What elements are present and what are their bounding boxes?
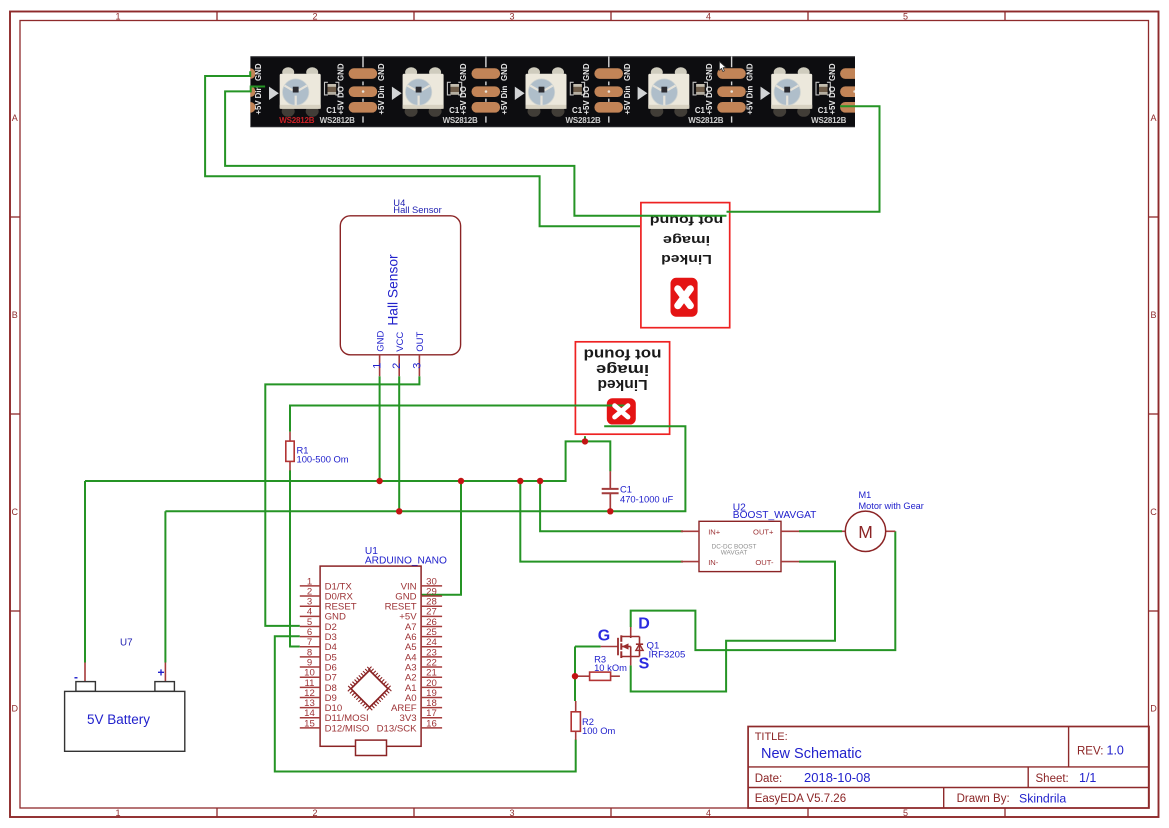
- svg-text:D13/SCK: D13/SCK: [377, 723, 418, 734]
- svg-text:GND: GND: [746, 63, 755, 81]
- svg-text:DO: DO: [705, 86, 714, 98]
- junction (520.3,481): [517, 478, 523, 484]
- wire gate net: [575, 646, 601, 648]
- svg-text:IN+: IN+: [708, 528, 721, 537]
- svg-text:GND: GND: [582, 63, 591, 81]
- wire gate net vertical R3 R2: [574, 647, 576, 702]
- wire U2 OUT- to Q1 source: [631, 562, 835, 692]
- wire R1 top to image U5: [290, 406, 625, 432]
- svg-text:Din: Din: [377, 85, 386, 98]
- svg-text:Skindrila: Skindrila: [1019, 791, 1066, 805]
- svg-text:A: A: [12, 113, 18, 123]
- junction (379.6,481): [376, 478, 382, 484]
- svg-text:Hall Sensor: Hall Sensor: [393, 204, 441, 215]
- svg-text:A: A: [1150, 113, 1156, 123]
- svg-text:5: 5: [903, 808, 908, 818]
- svg-text:Din: Din: [746, 85, 755, 98]
- svg-text:10 kOm: 10 kOm: [594, 662, 627, 673]
- svg-text:3: 3: [411, 363, 423, 369]
- junction (575,676.2): [572, 673, 578, 679]
- svg-text:GND: GND: [377, 63, 386, 81]
- svg-text:+5V: +5V: [377, 100, 386, 115]
- svg-text:DO: DO: [828, 86, 837, 98]
- svg-text:WS2812B: WS2812B: [279, 116, 314, 125]
- wire hall VCC to VCC bus: [398, 376, 400, 511]
- svg-text:GND: GND: [459, 63, 468, 81]
- svg-text:Hall Sensor: Hall Sensor: [386, 254, 401, 326]
- wire R1 bottom to arduino D4: [290, 470, 300, 646]
- IC U2 BOOST_WAVGAT: [681, 502, 816, 571]
- svg-text:3: 3: [509, 11, 514, 21]
- svg-text:TITLE:: TITLE:: [755, 731, 788, 743]
- junction (399.2,511.3): [396, 508, 402, 514]
- svg-text:D: D: [638, 615, 650, 632]
- svg-text:WS2812B: WS2812B: [443, 116, 478, 125]
- svg-text:WAVGAT: WAVGAT: [721, 550, 748, 557]
- svg-text:GND: GND: [336, 63, 345, 81]
- svg-text:OUT: OUT: [415, 332, 426, 352]
- svg-text:ARDUINO_NANO: ARDUINO_NANO: [365, 555, 447, 566]
- svg-text:+5V: +5V: [336, 100, 345, 115]
- svg-text:+5V: +5V: [746, 100, 755, 115]
- svg-text:New Schematic: New Schematic: [761, 746, 862, 762]
- svg-text:100 Om: 100 Om: [582, 725, 616, 736]
- svg-text:M: M: [858, 522, 873, 542]
- title block: [748, 727, 1149, 809]
- svg-text:+5V: +5V: [582, 100, 591, 115]
- svg-text:U7: U7: [120, 638, 133, 649]
- svg-text:C: C: [1150, 507, 1157, 517]
- wire battery minus to GND bus: [84, 481, 86, 663]
- image placeholder U3 (linked image not found): [641, 203, 730, 328]
- svg-text:DO: DO: [336, 86, 345, 98]
- svg-text:+5V: +5V: [705, 100, 714, 115]
- junction (610.3,511.3): [607, 508, 613, 514]
- svg-text:REV:: REV:: [1077, 746, 1103, 758]
- svg-text:WS2812B: WS2812B: [320, 116, 355, 125]
- image placeholder U5 (linked image not found) X glyph: [615, 406, 628, 417]
- svg-text:DO: DO: [459, 86, 468, 98]
- svg-text:1/1: 1/1: [1079, 771, 1096, 785]
- svg-text:Motor with Gear: Motor with Gear: [859, 501, 924, 511]
- wire image U5 bottom pin stub: [584, 436, 586, 441]
- wire LED +5V pad to image U3 pin 1: [727, 106, 880, 212]
- wire hall GND to GND bus: [379, 376, 381, 481]
- svg-text:DO: DO: [582, 86, 591, 98]
- svg-text:15: 15: [304, 718, 315, 729]
- svg-text:+5V: +5V: [828, 100, 837, 115]
- svg-text:Drawn By:: Drawn By:: [957, 793, 1010, 805]
- svg-text:+5V: +5V: [623, 100, 632, 115]
- svg-text:4: 4: [706, 11, 711, 21]
- battery U7 5V: [65, 638, 185, 752]
- svg-text:image: image: [663, 233, 710, 248]
- wire battery plus to VCC bus: [164, 511, 166, 662]
- svg-text:4: 4: [706, 808, 711, 818]
- svg-text:B: B: [1150, 310, 1156, 320]
- svg-text:+5V: +5V: [500, 100, 509, 115]
- junction (540.1,481): [537, 478, 543, 484]
- resistor R2: [571, 701, 615, 740]
- svg-text:100-500 Om: 100-500 Om: [297, 453, 349, 464]
- svg-text:WS2812B: WS2812B: [811, 116, 846, 125]
- svg-text:IRF3205: IRF3205: [649, 649, 686, 660]
- svg-text:WS2812B: WS2812B: [565, 116, 600, 125]
- svg-text:3: 3: [509, 808, 514, 818]
- svg-text:1.0: 1.0: [1107, 744, 1124, 758]
- svg-text:GND: GND: [623, 63, 632, 81]
- svg-text:2: 2: [312, 808, 317, 818]
- svg-text:2018-10-08: 2018-10-08: [804, 770, 871, 785]
- svg-text:D: D: [12, 704, 19, 714]
- svg-text:+5V: +5V: [459, 100, 468, 115]
- capacitor C1: [602, 471, 674, 511]
- svg-text:B: B: [12, 310, 18, 320]
- svg-text:D: D: [1150, 704, 1157, 714]
- wire GND bus to U2 IN-: [520, 481, 683, 562]
- svg-text:OUT-: OUT-: [755, 558, 774, 567]
- op-amp U4 Hall Sensor: [340, 197, 460, 376]
- svg-text:470-1000 uF: 470-1000 uF: [620, 493, 673, 504]
- svg-text:1: 1: [372, 363, 384, 369]
- svg-text:GND: GND: [500, 63, 509, 81]
- IC U1 ARDUINO_NANO: [300, 546, 447, 755]
- resistor R1: [286, 432, 349, 471]
- svg-text:GND: GND: [375, 331, 386, 352]
- wire LED GND pad to image U3 left pin: [205, 71, 640, 226]
- svg-text:5: 5: [903, 11, 908, 21]
- svg-text:WS2812B: WS2812B: [688, 116, 723, 125]
- resistor R3: [575, 653, 627, 680]
- svg-text:C: C: [12, 507, 19, 517]
- svg-text:+5V: +5V: [254, 100, 263, 115]
- image placeholder U3 (linked image not found) X glyph: [678, 289, 690, 306]
- wire U2 OUT+ to motor: [799, 530, 842, 532]
- svg-text:GND: GND: [828, 63, 837, 81]
- svg-text:Din: Din: [500, 85, 509, 98]
- svg-text:Sheet:: Sheet:: [1036, 773, 1069, 785]
- svg-text:GND: GND: [705, 63, 714, 81]
- transistor Q1 IRF3205: [598, 615, 686, 672]
- svg-text:-: -: [74, 670, 78, 684]
- svg-text:VCC: VCC: [395, 332, 406, 352]
- junction (461,481): [458, 478, 464, 484]
- svg-text:Din: Din: [623, 85, 632, 98]
- wire VCC bus: [165, 426, 685, 511]
- svg-text:Linked: Linked: [661, 252, 712, 267]
- svg-text:image: image: [596, 361, 649, 377]
- image placeholder U5 (linked image not found): [575, 342, 669, 434]
- wire GND bus to arduino pin29 GND: [421, 481, 461, 595]
- svg-text:16: 16: [426, 718, 437, 729]
- junction (585,441.4): [582, 438, 588, 444]
- svg-text:1: 1: [115, 808, 120, 818]
- svg-text:IN-: IN-: [708, 558, 719, 567]
- wire LED Din pad to image U3 pin 2: [225, 87, 726, 216]
- svg-text:Linked: Linked: [597, 376, 647, 392]
- svg-text:M1: M1: [859, 490, 872, 500]
- svg-text:not found: not found: [584, 346, 662, 362]
- svg-text:BOOST_WAVGAT: BOOST_WAVGAT: [733, 510, 817, 521]
- mouse cursor: [719, 62, 726, 72]
- wire hall OUT to arduino D2: [265, 376, 419, 626]
- svg-text:2: 2: [312, 11, 317, 21]
- svg-text:G: G: [598, 627, 610, 644]
- svg-text:Date:: Date:: [755, 773, 783, 785]
- svg-text:GND: GND: [254, 63, 263, 81]
- motor M1: [842, 490, 924, 551]
- svg-text:5V Battery: 5V Battery: [87, 712, 150, 727]
- svg-text:2: 2: [391, 363, 403, 369]
- svg-text:D12/MISO: D12/MISO: [325, 723, 370, 734]
- svg-text:+: +: [157, 665, 164, 679]
- wire R2 bottom to bottom bus: [275, 636, 576, 771]
- wire motor to Q1 drain: [631, 531, 896, 650]
- svg-text:EasyEDA V5.7.26: EasyEDA V5.7.26: [755, 793, 846, 805]
- svg-text:1: 1: [115, 11, 120, 21]
- wire GND bus to U2 IN+: [540, 481, 683, 531]
- wire GND bus: [85, 441, 610, 481]
- svg-text:OUT+: OUT+: [753, 528, 774, 537]
